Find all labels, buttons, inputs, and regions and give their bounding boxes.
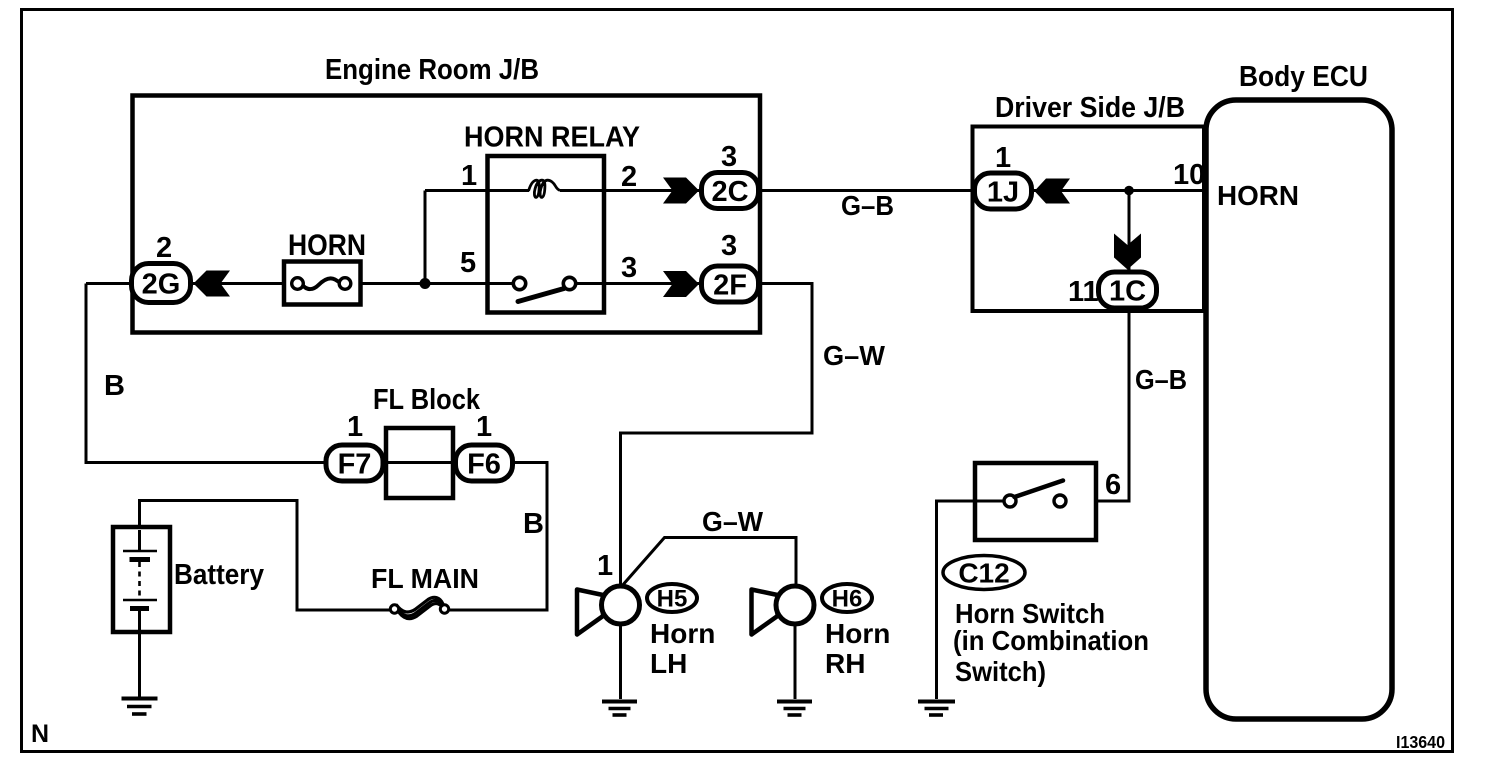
ground (horn RH) xyxy=(777,702,812,716)
wire: G-W net from 2F down to horns xyxy=(621,284,813,585)
svg-text:Horn: Horn xyxy=(825,618,890,649)
svg-text:11: 11 xyxy=(1068,276,1099,308)
wire: B net from 2G down and across to F7 xyxy=(86,284,330,463)
ground (horn switch) xyxy=(918,702,955,716)
svg-text:H5: H5 xyxy=(657,586,688,613)
wire: horn RH to ground xyxy=(794,624,797,699)
svg-text:1J: 1J xyxy=(987,177,1019,209)
svg-text:F6: F6 xyxy=(467,449,501,481)
relay switch lever xyxy=(518,289,564,302)
connector F6 xyxy=(456,411,513,481)
horn LH H5 xyxy=(577,550,715,679)
svg-text:(in Combination: (in Combination xyxy=(953,625,1149,656)
wire: relay pin1 drop to junction xyxy=(424,191,427,284)
svg-text:I13640: I13640 xyxy=(1396,732,1445,752)
horn switch contact circles xyxy=(1004,495,1016,507)
relay switch contact circles xyxy=(513,277,525,289)
svg-text:LH: LH xyxy=(650,648,687,679)
connector 1C xyxy=(1068,272,1157,308)
connector 2C xyxy=(702,141,759,209)
wire: relay switch out to 2F xyxy=(570,282,700,285)
svg-text:HORN RELAY: HORN RELAY xyxy=(464,122,640,154)
svg-text:1: 1 xyxy=(461,160,477,192)
svg-text:1: 1 xyxy=(476,411,492,443)
Engine Room J/B box xyxy=(133,54,761,333)
svg-text:2G: 2G xyxy=(142,269,181,301)
junction dot (relay pin 1/5 tie) xyxy=(420,278,431,289)
HORN RELAY xyxy=(464,122,640,313)
svg-text:2: 2 xyxy=(621,161,637,193)
wire: battery positive to FL MAIN xyxy=(140,501,397,611)
svg-text:G–W: G–W xyxy=(823,340,886,371)
wire: horn LH to horn RH branch xyxy=(621,538,796,588)
svg-text:H6: H6 xyxy=(832,586,863,613)
Body ECU xyxy=(1206,61,1392,719)
wire: fuse to relay switch (junction span) xyxy=(351,282,519,285)
arrow into 2C xyxy=(663,178,699,204)
svg-text:Body ECU: Body ECU xyxy=(1239,61,1368,93)
connector 1J xyxy=(975,142,1032,209)
svg-text:2C: 2C xyxy=(711,176,748,208)
wire: main feed row y=283.5 (2G to fuse) xyxy=(86,282,291,285)
svg-text:RH: RH xyxy=(825,648,865,679)
svg-text:Driver Side J/B: Driver Side J/B xyxy=(995,92,1185,124)
svg-text:FL Block: FL Block xyxy=(373,384,481,416)
wire: horn switch to ground xyxy=(937,501,1015,699)
wire: battery negative to ground xyxy=(138,630,141,699)
connector C12 label xyxy=(943,556,1149,688)
svg-text:G–B: G–B xyxy=(1135,364,1187,395)
arrow into 1C xyxy=(1114,234,1141,270)
connector F7 xyxy=(326,411,383,481)
svg-text:1: 1 xyxy=(347,411,363,443)
relay coil xyxy=(529,180,561,197)
fuse HORN box xyxy=(284,229,366,305)
svg-text:2F: 2F xyxy=(713,270,747,302)
fuse element xyxy=(302,278,341,289)
svg-text:3: 3 xyxy=(721,230,737,262)
svg-text:C12: C12 xyxy=(958,558,1009,589)
arrow into 2G xyxy=(194,271,231,297)
svg-text:B: B xyxy=(104,370,125,402)
junction dot (1J / 1C tie) xyxy=(1124,186,1134,196)
svg-text:G–W: G–W xyxy=(702,506,764,537)
wire: junction down through 1C to horn switch pin 6 xyxy=(1056,191,1129,502)
Driver Side J/B box xyxy=(973,92,1205,311)
arrow into 1J xyxy=(1035,179,1071,204)
svg-text:FL MAIN: FL MAIN xyxy=(371,563,479,594)
wire through FL Block xyxy=(330,461,515,464)
svg-text:2: 2 xyxy=(156,232,172,264)
horn switch lever xyxy=(1015,481,1064,498)
horn RH H6 xyxy=(752,584,891,679)
svg-text:G–B: G–B xyxy=(841,190,894,221)
svg-text:HORN: HORN xyxy=(1217,180,1299,211)
ground (horn LH) xyxy=(602,702,637,716)
horn switch C12 box xyxy=(975,463,1121,540)
connector 2G xyxy=(132,232,191,303)
wire: relay coil row to 2C, G-B net to Body ECU pin 10 xyxy=(560,189,1206,192)
battery xyxy=(113,527,264,632)
svg-text:1: 1 xyxy=(597,550,613,582)
svg-text:6: 6 xyxy=(1105,469,1121,501)
svg-text:F7: F7 xyxy=(338,449,372,481)
svg-text:Horn: Horn xyxy=(650,618,715,649)
svg-text:N: N xyxy=(31,720,49,748)
FL Block box xyxy=(373,384,481,498)
svg-text:HORN: HORN xyxy=(288,229,366,262)
svg-text:1C: 1C xyxy=(1109,276,1146,308)
svg-text:Battery: Battery xyxy=(174,559,264,591)
arrow into 2F xyxy=(663,271,699,297)
svg-text:B: B xyxy=(523,508,544,540)
connector 2F xyxy=(702,230,759,302)
wire: F6 down to FL MAIN xyxy=(444,463,547,611)
svg-text:Switch): Switch) xyxy=(955,656,1046,687)
svg-text:3: 3 xyxy=(721,141,737,173)
svg-text:5: 5 xyxy=(460,247,476,279)
wire: relay coil row y=190.5 left of coil xyxy=(425,189,529,192)
fusible link FL MAIN xyxy=(371,563,479,619)
svg-text:3: 3 xyxy=(621,252,637,284)
svg-text:1: 1 xyxy=(995,142,1011,174)
wire: horn LH to ground xyxy=(619,624,622,699)
ground (battery) xyxy=(122,699,158,715)
svg-text:10: 10 xyxy=(1173,159,1205,191)
svg-text:Engine Room J/B: Engine Room J/B xyxy=(325,54,539,86)
